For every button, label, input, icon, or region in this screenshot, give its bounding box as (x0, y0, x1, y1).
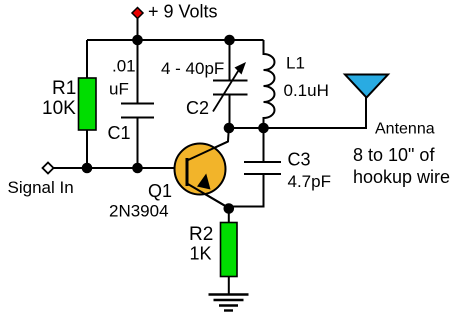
svg-text:hookup wire: hookup wire (353, 167, 450, 187)
svg-text:Antenna: Antenna (375, 121, 435, 138)
svg-text:4.7pF: 4.7pF (288, 172, 331, 191)
svg-text:10K: 10K (42, 98, 76, 119)
svg-text:2N3904: 2N3904 (109, 202, 169, 221)
svg-text:R2: R2 (189, 224, 213, 245)
svg-text:1K: 1K (190, 244, 212, 264)
svg-text:L1: L1 (286, 54, 305, 73)
svg-text:.01: .01 (112, 57, 136, 76)
svg-text:8 to 10" of: 8 to 10" of (353, 145, 435, 165)
svg-text:uF: uF (109, 80, 129, 99)
svg-text:Q1: Q1 (148, 181, 172, 201)
svg-text:0.1uH: 0.1uH (284, 81, 329, 100)
svg-text:+ 9 Volts: + 9 Volts (148, 2, 218, 22)
svg-text:C2: C2 (186, 98, 209, 118)
svg-text:C3: C3 (288, 150, 311, 170)
svg-text:Signal In: Signal In (8, 178, 74, 197)
svg-text:4 - 40pF: 4 - 40pF (161, 59, 224, 78)
svg-text:C1: C1 (108, 123, 131, 143)
svg-text:R1: R1 (52, 78, 76, 99)
